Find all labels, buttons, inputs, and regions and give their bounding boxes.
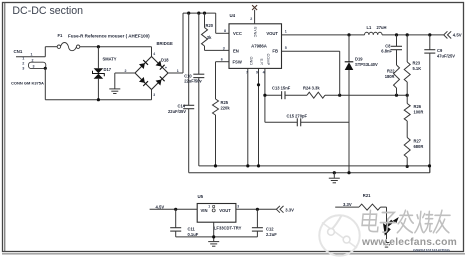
svg-text:3: 3 [237, 204, 239, 208]
svg-text:3: 3 [22, 67, 24, 71]
svg-text:D17: D17 [104, 67, 112, 72]
svg-text:CONN GM K375A: CONN GM K375A [11, 80, 44, 85]
svg-text:3: 3 [223, 46, 225, 50]
svg-text:220k: 220k [221, 105, 231, 110]
svg-text:U5: U5 [198, 194, 204, 199]
svg-text:9: 9 [256, 70, 258, 74]
svg-text:R27: R27 [414, 138, 422, 143]
svg-text:F1: F1 [58, 33, 64, 38]
svg-text:2.2uF: 2.2uF [266, 232, 277, 237]
svg-text:680R: 680R [414, 144, 424, 149]
svg-text:FB: FB [272, 49, 278, 54]
svg-text:R25: R25 [221, 100, 229, 105]
svg-text:4.5V: 4.5V [453, 33, 462, 38]
svg-text:GND: GND [249, 57, 254, 66]
svg-text:6: 6 [221, 58, 223, 62]
svg-text:4: 4 [263, 70, 265, 74]
svg-text:0.1uF: 0.1uF [188, 232, 199, 237]
svg-text:27uH: 27uH [377, 25, 387, 30]
svg-text:E.P.: E.P. [259, 59, 264, 66]
svg-text:SYNC: SYNC [253, 27, 258, 38]
svg-text:3: 3 [153, 93, 155, 97]
svg-text:VOUT: VOUT [266, 31, 278, 36]
svg-text:7: 7 [246, 70, 248, 74]
svg-text:C13 15nF: C13 15nF [272, 86, 291, 91]
svg-text:R24 3.3k: R24 3.3k [303, 86, 320, 91]
svg-text:GSPG110116142DSG: GSPG110116142DSG [413, 248, 450, 252]
svg-text:D18: D18 [161, 58, 169, 63]
svg-text:U4: U4 [230, 13, 236, 18]
svg-text:VIN: VIN [201, 208, 208, 213]
svg-text:1: 1 [31, 53, 33, 57]
svg-text:4.5V: 4.5V [156, 204, 165, 209]
svg-text:BRIDGE: BRIDGE [157, 41, 173, 46]
svg-text:3: 3 [33, 64, 35, 68]
svg-text:22uF/35V: 22uF/35V [168, 109, 186, 114]
svg-text:180R: 180R [385, 74, 395, 79]
svg-text:CN1: CN1 [14, 49, 23, 54]
svg-text:3.3V: 3.3V [343, 202, 352, 207]
svg-text:LF33CDT-TRY: LF33CDT-TRY [214, 225, 242, 230]
svg-text:1: 1 [177, 69, 179, 73]
svg-text:R20: R20 [206, 23, 214, 28]
svg-text:R23: R23 [413, 61, 421, 66]
svg-text:2: 2 [250, 17, 252, 21]
svg-text:R22: R22 [387, 69, 395, 74]
svg-text:Fuse-R Reference mouser ( AHEF: Fuse-R Reference mouser ( AHEF100) [68, 34, 150, 39]
svg-text:VCC: VCC [233, 31, 242, 36]
svg-text:COMP: COMP [266, 54, 271, 66]
svg-text:3.3V: 3.3V [285, 207, 294, 212]
svg-text:C15 270pF: C15 270pF [287, 113, 308, 118]
svg-text:L1: L1 [367, 25, 373, 30]
svg-text:4: 4 [153, 52, 155, 56]
svg-text:R21: R21 [363, 193, 371, 198]
svg-text:STPS3L40V: STPS3L40V [355, 62, 378, 67]
svg-text:www.elecfans.com: www.elecfans.com [361, 237, 457, 248]
svg-text:22uF/50v: 22uF/50v [184, 79, 202, 84]
svg-text:DC-DC section: DC-DC section [12, 5, 83, 17]
svg-text:FSW: FSW [233, 60, 242, 65]
svg-text:A7986A: A7986A [251, 44, 267, 49]
svg-text:100R: 100R [414, 110, 424, 115]
svg-text:VOUT: VOUT [219, 208, 231, 213]
svg-text:5.1K: 5.1K [413, 66, 422, 71]
svg-text:1: 1 [22, 57, 24, 61]
svg-text:R26: R26 [414, 104, 422, 109]
svg-text:1: 1 [285, 30, 287, 34]
svg-text:47uF/25V: 47uF/25V [437, 53, 455, 58]
svg-text:5: 5 [285, 46, 287, 50]
svg-text:8: 8 [224, 29, 226, 33]
svg-text:EN: EN [233, 49, 239, 54]
svg-text:3k: 3k [207, 35, 212, 40]
svg-text:6.8nF: 6.8nF [381, 48, 392, 53]
svg-text:SMATY: SMATY [103, 56, 117, 61]
svg-text:1: 1 [208, 204, 210, 208]
svg-text:2: 2 [22, 62, 24, 66]
